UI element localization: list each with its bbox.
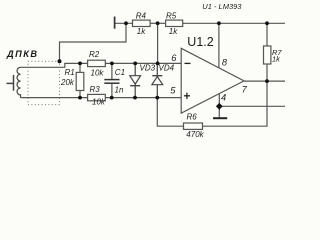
sensor core bar [13,75,15,91]
wire: feedback loop via R6 [157,81,267,126]
resistor R1 [76,63,84,97]
sensor housing dashed box [28,61,60,104]
resistor R5 [166,20,183,26]
node: R7 top junction [265,21,269,25]
svg-text:10k: 10k [91,69,105,78]
svg-text:U1.2: U1.2 [187,35,213,49]
svg-text:1k: 1k [272,55,281,64]
wire: pin 4 to ground [218,94,220,118]
wire: drop from supply node to sensor node [60,23,127,61]
svg-text:7: 7 [242,84,248,94]
resistor R4 [133,20,151,26]
svg-text:4: 4 [221,92,226,102]
node: C1 bottom [110,96,114,100]
svg-text:6: 6 [171,53,177,63]
node: VD3 bottom [133,96,137,100]
node: R4/R5 midpoint [156,21,160,25]
power terminal bar [114,17,116,29]
op-amp U1.2 triangle [181,48,244,113]
svg-text:8: 8 [222,58,228,68]
node: R1 bottom [78,96,82,100]
node: output junction [265,79,269,83]
ground bar [213,117,227,119]
svg-text:1k: 1k [169,27,178,36]
resistor R7 [264,23,271,81]
svg-text:ДПКВ: ДПКВ [6,49,39,59]
wire: top input net (minus) [21,63,182,67]
svg-text:20k: 20k [60,78,75,87]
wire: bias drop R4/R5 midpoint to minus input net [157,23,159,63]
svg-text:U1 - LM393: U1 - LM393 [202,2,242,11]
op-amp plus sign [184,93,190,99]
resistor R2 [88,60,106,66]
node: supply tap junction [124,21,128,25]
svg-text:R3: R3 [90,85,101,94]
svg-text:1k: 1k [137,27,146,36]
resistor R3 [88,94,106,100]
svg-text:R2: R2 [89,50,100,59]
svg-text:VD3: VD3 [140,64,156,73]
resistor R6 [184,123,203,129]
inductor L sensor coil [17,67,20,97]
svg-text:VD4: VD4 [159,64,175,73]
svg-text:R6: R6 [187,113,198,122]
sensor lead [7,82,14,84]
capacitor C1 [104,63,119,97]
node: C1 top [110,62,114,66]
svg-text:R1: R1 [65,68,75,77]
svg-text:R4: R4 [136,11,147,20]
node: sensor shield junction [58,59,62,63]
wire: pin 8 supply drop [218,23,220,67]
diode VD4 [152,63,163,97]
node: VD3 top [133,62,137,66]
node: R1 top [78,62,82,66]
wire: bottom input net (plus) [21,97,182,99]
op-amp minus sign [185,62,191,64]
diode VD3 [130,63,141,97]
node: pin8 rail junction [217,21,221,25]
svg-text:C1: C1 [115,68,125,77]
svg-text:470k: 470k [186,130,204,139]
node: pin 4 ground junction (diamond) [216,103,223,110]
node: VD4 bottom / feedback tap [155,96,159,100]
svg-text:1n: 1n [115,86,124,95]
node: VD4 top [156,62,160,66]
svg-text:5: 5 [170,85,176,95]
svg-text:R5: R5 [166,11,177,20]
wire: ground rail [219,105,285,107]
svg-text:10k: 10k [92,98,106,107]
wire: top supply rail [115,22,286,24]
wire: output rail [244,80,285,82]
